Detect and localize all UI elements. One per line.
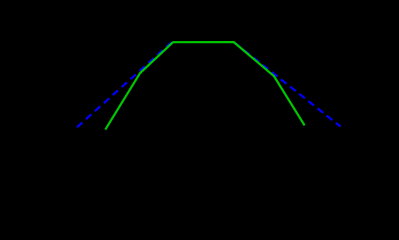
- blue dashed line left (extension of left shoulder slope to baseline): [77, 41, 173, 127]
- blue dashed line right (extension of right shoulder slope to baseline): [235, 43, 341, 127]
- green solid polyline (trapezoid with knees): [105, 42, 304, 130]
- chart canvas: [0, 0, 399, 164]
